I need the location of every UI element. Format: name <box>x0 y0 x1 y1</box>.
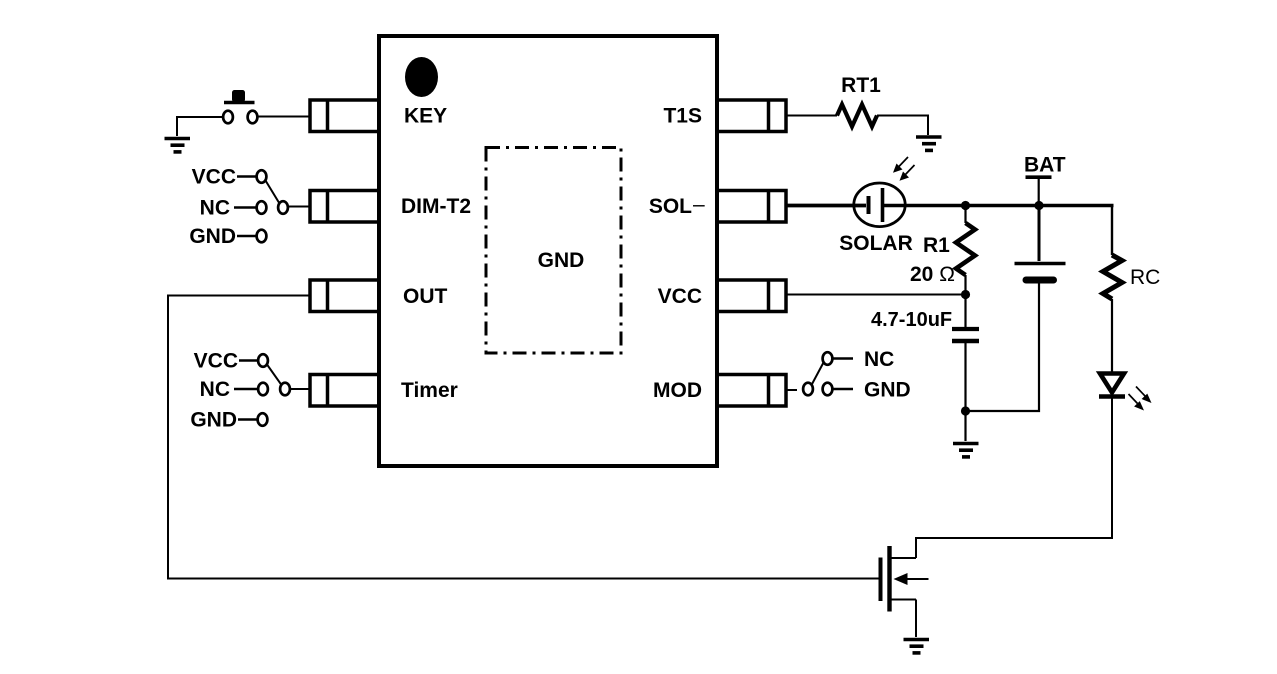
resistor RT1 <box>837 105 877 127</box>
svg-text:OUT: OUT <box>403 285 448 308</box>
svg-text:BAT: BAT <box>1024 154 1066 177</box>
switch contact NC (MOD selector) <box>823 352 833 365</box>
pushbutton S1 contact left <box>223 111 233 124</box>
wire NC stub (Timer selector) <box>234 388 258 391</box>
wire T1S pin to RT1 <box>786 115 837 117</box>
wire NC stub (MOD selector) <box>833 357 853 360</box>
battery BT1 long plate <box>1015 262 1066 266</box>
pin VCC (pin box) <box>717 280 786 312</box>
svg-text:SOL: SOL <box>649 195 692 218</box>
wire NC stub (DIM-T2 selector) <box>234 206 256 209</box>
capacitor C1 plate bottom <box>952 339 979 344</box>
switch contact GND (DIM-T2 selector) <box>257 230 267 243</box>
LED D1 cathode bar <box>1099 394 1125 399</box>
MOSFET Q1 channel bar <box>887 546 891 612</box>
capacitor C1 plate top <box>952 327 979 331</box>
battery BT1 short plate <box>1026 277 1054 284</box>
wire GND stub (DIM-T2 selector) <box>237 235 256 238</box>
MOSFET Q1 body arrow <box>894 573 929 585</box>
solar cell light arrow 2 <box>900 165 915 181</box>
LED light arrow 2 <box>1129 394 1145 411</box>
wire solar cell to node A (thick bus) <box>883 204 966 208</box>
ground GND3 (node D) <box>953 444 979 457</box>
capacitor C1 lead bottom <box>964 343 966 411</box>
switch blade wire (MOD selector) <box>812 363 824 386</box>
wire GND stub (MOD selector) <box>833 388 853 391</box>
battery BT1 lead bottom <box>966 284 1040 412</box>
svg-text:T1S: T1S <box>663 105 702 128</box>
switch contact NC (Timer selector) <box>258 383 268 396</box>
pin T1S (pin box) <box>717 100 786 132</box>
svg-text:GND: GND <box>189 225 236 248</box>
svg-text:VCC: VCC <box>658 285 702 308</box>
wire node A to node B (thick bus) <box>966 204 1040 208</box>
pushbutton S1 cap <box>232 90 245 102</box>
LED D1 triangle <box>1100 374 1124 393</box>
wire common contact to DIM-T2 pin <box>289 206 311 208</box>
switch contact GND (Timer selector) <box>258 413 268 426</box>
resistor R1 <box>956 223 975 275</box>
wire common contact to Timer pin <box>291 388 311 390</box>
pin SOL (pin box) <box>717 191 786 223</box>
wire RT1 to ground <box>877 116 928 136</box>
junction node C <box>961 290 970 299</box>
svg-text:20 Ω: 20 Ω <box>910 263 955 286</box>
pushbutton S1 actuator bar <box>224 101 255 105</box>
MOSFET Q1 gate bar <box>879 558 883 602</box>
switch common contact (DIM-T2 selector) <box>278 201 288 214</box>
svg-text:GND: GND <box>864 379 911 402</box>
svg-text:NC: NC <box>200 378 230 401</box>
wire VCC stub (Timer selector) <box>239 359 258 362</box>
svg-text:SOLAR: SOLAR <box>839 232 913 255</box>
wire VCC pin to node C <box>786 294 966 296</box>
switch contact VCC (DIM-T2 selector) <box>257 170 267 183</box>
resistor R1 lead bottom <box>964 275 966 295</box>
wire node B to RC corner (thick bus) <box>1039 204 1114 208</box>
switch blade wire (DIM-T2 selector) <box>266 181 280 204</box>
wire node D to ground <box>964 411 966 441</box>
pin OUT (pin box) <box>310 280 379 312</box>
solar cell PV1 body <box>854 183 905 227</box>
pin DIM-T2 (pin box) <box>310 191 379 223</box>
switch contact GND (MOD selector) <box>823 383 833 396</box>
wire pushbutton right contact to KEY pin <box>258 116 310 118</box>
MOSFET Q1 drain stub <box>890 557 917 559</box>
svg-text:RC: RC <box>1130 266 1160 289</box>
switch contact NC (DIM-T2 selector) <box>257 201 267 214</box>
wire GND stub (Timer selector) <box>238 418 257 421</box>
svg-text:NC: NC <box>200 197 230 220</box>
LED light arrow 1 <box>1136 387 1152 404</box>
IC internal dashed GND region <box>486 148 621 354</box>
ground GND1 (pushbutton) <box>165 139 191 152</box>
junction node D <box>961 406 970 415</box>
solar cell PV1 long plate <box>881 188 885 222</box>
capacitor C1 lead top <box>964 295 966 328</box>
ground GND2 (RT1) <box>916 137 942 150</box>
wire MOD pin to common contact <box>786 389 797 391</box>
wire OUT pin feedback loop to MOSFET gate <box>168 296 881 579</box>
battery BT1 lead top <box>1038 206 1041 262</box>
resistor R1 lead top <box>964 206 966 224</box>
switch common contact (Timer selector) <box>280 383 290 396</box>
IC U1 body <box>379 36 717 466</box>
svg-text:–: – <box>693 193 705 216</box>
pin Timer (pin box) <box>310 375 379 407</box>
wire pushbutton left contact to ground <box>177 117 223 136</box>
junction node A <box>961 201 970 210</box>
svg-text:MOD: MOD <box>653 379 702 402</box>
resistor RC <box>1103 255 1122 299</box>
ground GND4 (MOSFET source) <box>904 640 930 653</box>
pin MOD (pin box) <box>717 375 786 407</box>
svg-text:4.7-10uF: 4.7-10uF <box>871 309 952 331</box>
wire SOL pin to solar cell (thick) <box>786 204 866 208</box>
svg-text:NC: NC <box>864 348 894 371</box>
switch blade wire (Timer selector) <box>267 365 282 386</box>
wire LED cathode to MOSFET drain <box>916 399 1112 559</box>
pushbutton S1 contact right <box>248 111 258 124</box>
solar cell light arrow 1 <box>893 157 908 173</box>
solar cell PV1 short plate <box>867 196 871 214</box>
switch common contact (MOD selector) <box>803 383 813 396</box>
IC pin-1 marker dot <box>405 57 438 97</box>
wire BAT terminal to node B <box>1038 179 1040 206</box>
wire bus corner down to RC <box>1111 206 1113 256</box>
svg-text:RT1: RT1 <box>841 74 881 97</box>
wire VCC stub (DIM-T2 selector) <box>237 175 256 178</box>
svg-text:GND: GND <box>190 409 237 432</box>
svg-text:DIM-T2: DIM-T2 <box>401 195 471 218</box>
BAT terminal bar <box>1026 175 1052 179</box>
svg-text:KEY: KEY <box>404 105 447 128</box>
switch contact VCC (Timer selector) <box>258 354 268 367</box>
svg-text:R1: R1 <box>923 234 950 257</box>
svg-text:VCC: VCC <box>192 166 236 189</box>
svg-text:VCC: VCC <box>194 350 238 373</box>
wire RC to LED anode <box>1111 299 1113 372</box>
junction node B <box>1034 201 1043 210</box>
svg-text:GND: GND <box>538 249 585 272</box>
wire MOSFET source to ground <box>915 600 917 638</box>
MOSFET Q1 source stub <box>890 599 917 601</box>
pin KEY (pin box) <box>310 100 379 132</box>
svg-text:Timer: Timer <box>401 379 458 402</box>
